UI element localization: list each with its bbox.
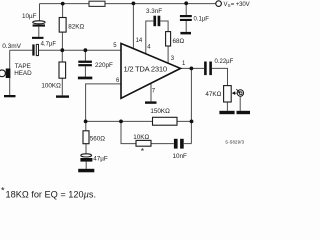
svg-text:*: * <box>1 186 5 196</box>
svg-text:47KΩ: 47KΩ <box>205 91 221 98</box>
svg-text:0.22µF: 0.22µF <box>215 59 234 65</box>
svg-text:100KΩ: 100KΩ <box>41 83 61 90</box>
svg-text:0.3mV: 0.3mV <box>2 43 21 50</box>
svg-text:150KΩ: 150KΩ <box>150 108 170 115</box>
svg-text:82KΩ: 82KΩ <box>68 24 84 31</box>
svg-text:14: 14 <box>136 38 143 44</box>
svg-text:HEAD: HEAD <box>14 70 32 77</box>
svg-text:S-5829/3: S-5829/3 <box>225 140 244 145</box>
svg-text:18KΩ for EQ = 120µs.: 18KΩ for EQ = 120µs. <box>6 189 97 199</box>
svg-text:4.7µF: 4.7µF <box>41 41 57 47</box>
svg-text:47µF: 47µF <box>93 156 108 163</box>
svg-text:10KΩ: 10KΩ <box>133 134 149 141</box>
svg-text:10nF: 10nF <box>173 153 188 160</box>
svg-text:68Ω: 68Ω <box>173 38 185 45</box>
svg-text:220pF: 220pF <box>95 62 113 69</box>
svg-text:TAPE: TAPE <box>15 63 31 70</box>
svg-text:0.1µF: 0.1µF <box>194 16 210 22</box>
svg-text:3.3nF: 3.3nF <box>146 8 162 15</box>
svg-text:560Ω: 560Ω <box>90 136 106 143</box>
svg-text:1/2 TDA 2310: 1/2 TDA 2310 <box>124 65 167 74</box>
svg-text:10µF: 10µF <box>22 13 37 20</box>
svg-text:= +30V: = +30V <box>231 2 250 8</box>
